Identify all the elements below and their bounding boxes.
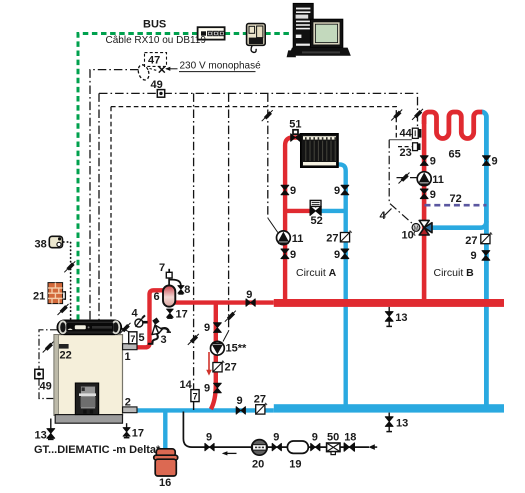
svg-text:27: 27 [225,362,237,374]
svg-text:9: 9 [206,432,212,444]
svg-text:20: 20 [252,459,264,471]
valve 9 circuit B blue top [483,156,491,166]
svg-text:11: 11 [432,174,444,186]
svg-text:17: 17 [132,427,144,439]
wire dashed left drop [110,107,112,320]
svg-text:9: 9 [273,432,279,444]
mixing valve 10 [412,220,432,235]
manifold valve 13 stub bottom [388,413,390,432]
wire dashed line [111,107,396,140]
blue pipe circuit A return [337,164,346,405]
connector 49 boiler [35,369,43,378]
purple dashed limit line 72 [425,204,487,207]
blue manifold return bar [274,404,504,412]
boiler drain stub right [126,423,128,437]
svg-text:49: 49 [151,79,163,91]
sensor 14 [191,390,199,402]
svg-text:9: 9 [290,185,296,197]
svg-text:7: 7 [130,334,135,344]
wire link 44 to cable 4 [389,139,412,141]
svg-text:9: 9 [246,289,252,301]
svg-text:4: 4 [380,210,387,222]
computer monitor [310,19,342,47]
wire drop to sensor 14 [193,93,195,389]
x connection mark [159,67,165,73]
red manifold supply bar [274,299,504,307]
wire drop to pump 11 circuit A [267,93,269,218]
valve 9 blue pipe [236,407,245,414]
disconnector 50 [327,443,340,455]
svg-text:9: 9 [312,432,318,444]
svg-text:BUS: BUS [143,18,166,30]
wire dashed stub to 23 [398,146,412,148]
svg-text:47: 47 [148,55,160,67]
valve 51 radiator [291,130,300,141]
svg-text:3: 3 [161,334,167,346]
valve 9 DHW 1 [205,443,214,450]
svg-text:7: 7 [159,262,165,274]
svg-text:16: 16 [159,477,171,489]
BUS interface module [198,27,225,39]
check valve 27 bypass [213,361,224,372]
check valve 27 blue pipe [256,403,267,414]
check valve 27 circuit B [481,232,492,243]
blue pipe circuit A branch [321,209,346,213]
svg-text:Circuit B: Circuit B [434,267,475,279]
svg-text:27: 27 [465,235,477,247]
wire sensor bus left drop [98,93,100,320]
svg-text:13: 13 [35,429,47,441]
valve 9 circuit A red low [281,249,289,259]
connector 49 top [157,90,164,98]
manifold valve 13 stub top [388,307,390,326]
red pipe boiler flow riser [136,290,164,347]
valve 9 circuit A blue low [341,249,349,259]
svg-text:8: 8 [184,284,190,296]
valve 9 circuit B blue low [482,251,490,261]
wire tick cable 4 [385,209,392,216]
svg-text:9: 9 [204,382,210,394]
svg-text:1: 1 [125,351,131,363]
boiler control panel 22 [57,320,122,335]
boiler drain stub left [50,419,52,440]
svg-text:22: 22 [60,349,72,361]
valve 13 return manifold [385,417,393,432]
svg-text:38: 38 [35,239,47,251]
red flow arrow bypass [208,352,210,371]
svg-text:M: M [414,226,419,232]
valve 9 red pipe to manifold [246,299,255,306]
computer base [287,48,351,58]
valve 17 bottle [167,309,174,318]
red pipe circuit B riser [422,120,427,301]
red pipe floor coil 65 [424,112,482,139]
svg-text:17: 17 [176,309,188,321]
svg-text:23: 23 [400,147,412,159]
red pipe circuit A branch [285,209,310,213]
wire drop to pump 15 [228,93,230,331]
radiator [301,134,338,167]
vent cap 7 [166,269,172,278]
wire sensor bus dash-dot horizontal [99,93,418,128]
blue pipe valve 10 branch [430,221,486,228]
sensor 14 link to pipe [193,401,195,410]
svg-text:GT...DIEMATIC -m Delta*: GT...DIEMATIC -m Delta* [34,444,161,456]
svg-text:27: 27 [254,393,266,405]
svg-text:44: 44 [400,128,413,140]
boiler body [54,335,123,424]
svg-text:18: 18 [344,432,356,444]
flash marks [64,261,75,272]
svg-text:11: 11 [292,233,304,245]
wire panel to sensor 5 [117,325,133,333]
svg-text:Circuit A: Circuit A [296,267,337,279]
valve 9 bypass bottom [214,383,222,393]
blue pipe circuit B return [482,112,487,405]
blue pipe drop to expansion vessel 16 [163,411,167,450]
room thermostat 38 [49,236,62,247]
wire connector 49 to burner [39,379,75,399]
expansion vessel 16 [154,449,178,476]
pump 15 [211,341,225,355]
svg-text:5: 5 [139,332,145,344]
check valve 27 circuit A [340,231,351,242]
valve 18 [344,443,354,451]
svg-text:50: 50 [327,432,339,444]
valve 9 circuit B red top [420,156,428,166]
wire boiler panel to connector 49 [39,330,57,369]
wire to pump 11 circuit B [397,177,418,179]
svg-text:2: 2 [125,397,131,409]
svg-text:15**: 15** [226,342,248,354]
red pipe bypass down [211,303,216,410]
svg-text:19: 19 [289,459,301,471]
boiler return stub 2 [123,407,137,413]
valve 9 DHW 3 [311,443,320,450]
svg-text:21: 21 [33,291,45,303]
svg-text:14: 14 [180,379,193,391]
svg-text:4: 4 [132,308,139,320]
svg-text:9: 9 [430,189,436,201]
svg-text:10: 10 [402,230,414,242]
DHW flow arrow [224,452,237,454]
blue pipe boiler return [136,408,274,412]
burner [75,383,98,415]
svg-text:65: 65 [449,149,461,161]
svg-text:13: 13 [395,312,407,324]
svg-text:27: 27 [326,233,338,245]
valve 13 supply manifold [385,312,393,327]
svg-text:9: 9 [492,156,498,168]
svg-text:230 V monophasé: 230 V monophasé [180,60,262,71]
cable marker 47 ellipse [136,53,166,82]
DHW inlet arrowhead [368,444,374,450]
svg-text:6: 6 [154,291,160,303]
svg-text:7: 7 [193,392,198,402]
svg-text:9: 9 [334,185,340,197]
svg-text:9: 9 [471,250,477,262]
svg-text:13: 13 [396,417,408,429]
valve 13 boiler [47,429,55,440]
valve 9 circuit A blue [341,185,349,195]
valve 9 circuit B red mid [420,189,428,199]
svg-text:72: 72 [450,193,462,205]
water meter 20 [252,440,268,456]
wire dotted room sensor 38 line [64,242,71,320]
pump 11 circuit A [277,231,291,245]
outdoor wall bricks 21 [48,283,65,304]
svg-text:9: 9 [237,395,243,407]
svg-text:Câble RX10 ou DB119: Câble RX10 ou DB119 [106,35,207,46]
boiler nameplate chip 22 [59,344,69,349]
computer tower [293,3,313,50]
sensor 5 [129,332,137,344]
svg-text:9: 9 [290,249,296,261]
boiler flow stub 1 [123,344,137,350]
valve 17 boiler [123,428,130,438]
wire cable 4 to valve 10 [389,140,413,225]
black DHW supply line [183,412,369,448]
safety valve 3 [148,318,171,344]
wire 230V dash-dot line [90,70,139,320]
clamp sensor 23 [413,143,421,151]
svg-text:49: 49 [40,380,52,392]
thermometer 4 [135,315,148,327]
svg-text:9: 9 [204,322,210,334]
motor valve 52 [310,200,321,215]
clamp thermostat 44 [412,128,421,138]
wire BUS green dashed cable [78,34,293,321]
red pipe circuit A riser [285,138,301,302]
valve 9 circuit A red [281,185,289,195]
svg-text:9: 9 [430,156,436,168]
svg-text:51: 51 [289,118,301,130]
svg-text:9: 9 [334,249,340,261]
arrow to 230V label [165,67,177,71]
telephone unit [247,24,266,53]
vessel 19 [287,441,308,453]
valve 9 bypass top [214,323,222,333]
valve 9 DHW 2 [272,443,281,450]
pump 11 circuit B [417,172,431,186]
air separator bottle 6 [163,278,181,307]
valve 8 [178,286,184,294]
svg-text:52: 52 [311,215,323,227]
red pipe flow to manifold [175,300,274,304]
